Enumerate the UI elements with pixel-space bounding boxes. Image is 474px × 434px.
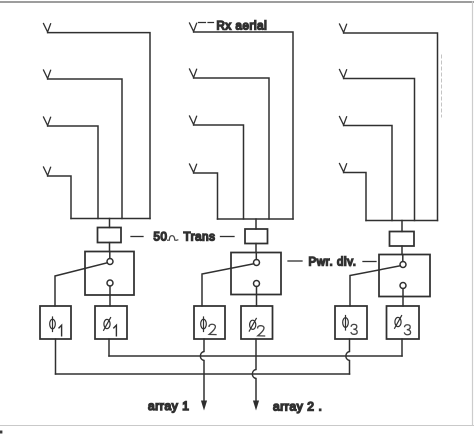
wire T3 to D3 xyxy=(401,246,403,255)
bus B (array 1) xyxy=(56,373,350,375)
antenna C4 (group 3) xyxy=(340,164,347,173)
phase symbol PHI2 xyxy=(201,317,207,332)
power divider D2 xyxy=(231,253,281,295)
phase shifter P6 box xyxy=(387,306,420,339)
frame top rule xyxy=(0,1,474,3)
arrowhead array 2 xyxy=(253,401,259,411)
feed bus group 2 xyxy=(218,218,294,220)
wire P2 down to bus A xyxy=(108,339,110,356)
wire P5 down to bus B with hop over bus A xyxy=(346,339,350,374)
wire D3a diagonal to P5 xyxy=(350,266,400,306)
wire C4 to feed xyxy=(344,173,366,221)
phase symbol phi-slash 3 xyxy=(395,316,402,329)
phase shifter P1 box xyxy=(40,306,71,339)
power divider D3 xyxy=(379,255,430,297)
transformer T2 xyxy=(245,229,268,244)
wire bus to T2 xyxy=(255,219,257,229)
wire into node D1a xyxy=(109,252,111,259)
node D2a xyxy=(254,260,260,266)
wire P4 to array2 arrow with hop over bus B xyxy=(252,339,256,401)
feed bus group 1 xyxy=(71,218,150,220)
label Pwr div right dash xyxy=(363,261,376,263)
feed bus group 3 xyxy=(366,220,438,222)
wire bus to T3 xyxy=(401,221,403,232)
bus A (array 2) xyxy=(109,355,402,357)
svg-text:Trans: Trans xyxy=(184,232,216,244)
wire P3 to array1 arrow with hop over bus A xyxy=(200,339,204,401)
transformer T3 xyxy=(390,232,415,247)
wire B2 to feed xyxy=(194,78,269,219)
wire B4 to feed xyxy=(194,173,218,219)
phase shifter P5 box xyxy=(335,306,367,339)
node D2b xyxy=(254,281,260,287)
svg-text:Pwr. div.: Pwr. div. xyxy=(309,257,357,269)
label subscript 3 xyxy=(405,325,411,335)
faint page edge line xyxy=(441,55,443,117)
antenna B3 (group 2) xyxy=(190,116,197,125)
wire P6 down to bus A xyxy=(401,339,403,356)
label subscript 2 xyxy=(258,326,265,336)
antenna C3 (group 3) xyxy=(340,117,347,126)
label subscript 1 xyxy=(114,325,117,336)
node D3b xyxy=(400,283,406,289)
wire T2 to D2 xyxy=(255,244,257,253)
phase symbol phi-slash 1 xyxy=(104,318,111,331)
frame bottom rule xyxy=(0,425,474,427)
transformer T1 xyxy=(98,228,122,243)
arrowhead array 1 xyxy=(201,401,207,411)
node D1a xyxy=(107,259,113,265)
wire B3 to feed xyxy=(194,125,244,219)
antenna A4 (group 1) xyxy=(44,167,51,176)
wire into node D3a xyxy=(402,255,404,262)
phase shifter P4 box xyxy=(241,306,273,339)
label 50ohm Trans left dash xyxy=(131,236,143,238)
wire bus to T1 xyxy=(109,219,111,228)
svg-text:50: 50 xyxy=(154,232,168,244)
label subscript 2 xyxy=(209,324,216,334)
antenna B4 (group 2) xyxy=(190,164,197,173)
wire C1 to feed xyxy=(344,33,438,221)
frame right rule xyxy=(472,2,474,425)
antenna A1 (group 1) xyxy=(44,24,51,33)
corner mark bottom left xyxy=(0,431,2,434)
wire A2 to feed xyxy=(48,79,122,219)
wire P1 down to bus B xyxy=(55,339,57,374)
power divider D1 xyxy=(85,252,134,296)
wire C2 to feed xyxy=(344,79,415,221)
wire D1b to P2 xyxy=(109,286,111,306)
label 50ohm Trans right dash xyxy=(221,236,235,238)
antenna B2 (group 2) xyxy=(190,69,197,78)
svg-text:Rx aerial: Rx aerial xyxy=(217,21,268,33)
label Rx aerial dashes xyxy=(199,22,214,24)
antenna B1 (group 2) xyxy=(190,23,197,32)
wire A4 to feed xyxy=(48,176,71,219)
phase shifter P3 box xyxy=(194,306,225,339)
node D3a xyxy=(400,262,406,268)
label subscript 1 xyxy=(59,325,62,336)
svg-text:array 2 .: array 2 . xyxy=(273,400,322,414)
label Pwr div left dash xyxy=(288,260,302,262)
antenna C2 (group 3) xyxy=(340,70,347,79)
wire D1a diagonal to P1 xyxy=(55,263,107,306)
wire into node D2a xyxy=(255,253,257,260)
node D1b xyxy=(107,280,113,286)
antenna C1 (group 3) xyxy=(340,24,347,33)
label subscript 3 xyxy=(351,324,357,334)
phase symbol phi-slash 2 xyxy=(249,318,256,331)
wire A3 to feed xyxy=(48,126,98,219)
wire A1 to feed xyxy=(48,33,150,219)
wire C3 to feed xyxy=(344,126,392,221)
svg-text:array 1: array 1 xyxy=(148,399,190,413)
antenna A2 (group 1) xyxy=(44,70,51,79)
wire T1 to D1 xyxy=(109,243,111,252)
phase shifter P2 box xyxy=(95,306,127,339)
phase symbol PHI3 xyxy=(343,316,349,331)
wire D2a diagonal to P3 xyxy=(202,264,254,306)
wire D2b to P4 xyxy=(256,287,258,307)
antenna A3 (group 1) xyxy=(44,117,51,126)
wire B1 to feed xyxy=(194,32,293,219)
wire D3b to P6 xyxy=(402,289,404,307)
phase symbol PHI1 xyxy=(50,317,56,332)
